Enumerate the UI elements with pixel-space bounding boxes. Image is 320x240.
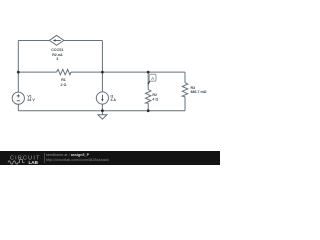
resistor R3 (vertical zigzag) (182, 83, 187, 97)
ammeter probe flag on R2 branch (148, 81, 150, 84)
V1 minus sign (17, 100, 20, 102)
current-controlled current source CCCS1 (diamond symbol) (49, 35, 64, 45)
ground symbol (below I1 branch) (101, 111, 103, 115)
CCCS1 arrow (pointing left) (56, 39, 61, 41)
wire: top rail from CCCS1 right terminal to right corner (64, 40, 103, 42)
svg-text:4 A: 4 A (111, 98, 117, 102)
wire: middle rail right segment (R1 right lead to R3 branch top corner) (71, 71, 185, 73)
CircuitLab logo (0, 151, 44, 165)
svg-text:CCCS1: CCCS1 (51, 48, 63, 52)
svg-text:886.7 mΩ: 886.7 mΩ (191, 90, 207, 94)
svg-text:2 Ω: 2 Ω (61, 83, 67, 87)
wire: vertical branch x=102 (top rail corner down to I1 top terminal) (101, 41, 103, 93)
wire: R3 branch bottom lead (R3 body down to bottom rail corner) (184, 97, 186, 111)
svg-text:4 Ω: 4 Ω (152, 97, 158, 101)
svg-text:LAB: LAB (29, 160, 39, 165)
voltage source V1 (circle) (12, 92, 24, 104)
svg-text:R2: R2 (152, 93, 157, 97)
wire: left vertical branch (top rail down to V1 top terminal) (17, 41, 19, 93)
wire: R3 branch top lead (mid rail corner down to R3 body) (184, 72, 186, 83)
current source I1 (circle with down arrow) (96, 92, 108, 104)
junction node dot (x=102 vertical / bottom rail) (101, 109, 104, 112)
junction node dot (x=102 vertical / mid rail) (101, 71, 104, 74)
V1 plus sign (17, 94, 20, 97)
svg-text:A: A (151, 76, 154, 81)
resistor R1 (horizontal zigzag on middle rail) (57, 69, 72, 74)
wire: left vertical branch (V1 bottom terminal down to bottom rail) (17, 104, 19, 111)
footer bar (0, 151, 220, 165)
wire: bottom rail (18, 110, 185, 112)
svg-text:3: 3 (56, 57, 58, 61)
wire: middle rail left segment (node at left vertical to R1 left lead) (18, 71, 56, 73)
wire: vertical branch x=102 (I1 bottom terminal to bottom rail) (101, 104, 103, 111)
wire: R2 branch top lead (mid rail junction down to R2 body) (147, 72, 149, 89)
wire: top rail from left corner to CCCS1 left terminal (18, 40, 49, 42)
junction node dot (left vertical / mid rail) (17, 71, 20, 74)
resistor R2 (vertical zigzag) (146, 90, 151, 104)
wire: R2 branch bottom lead (R2 body down to bottom rail) (147, 103, 149, 110)
junction node dot (R2 branch / bottom rail) (147, 109, 150, 112)
svg-text:R1: R1 (61, 78, 66, 82)
junction node dot (R2 branch / mid rail) (147, 71, 150, 74)
svg-text:24 V: 24 V (27, 98, 35, 102)
